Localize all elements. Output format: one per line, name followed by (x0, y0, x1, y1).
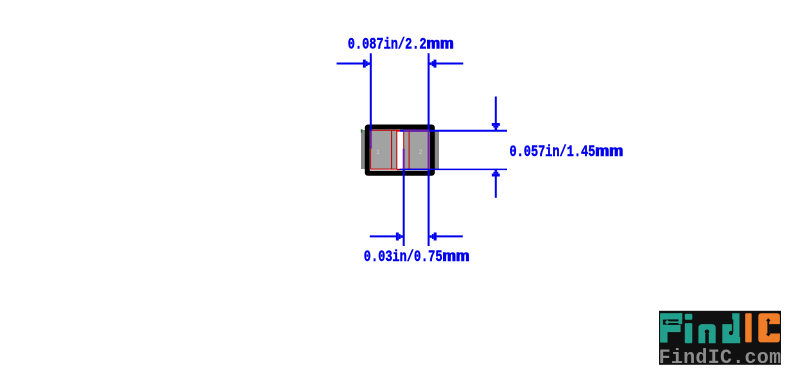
wire arrow line bottom-right (436, 235, 463, 237)
logo letter d (722, 313, 740, 343)
wire ext right-dim upper (400, 130, 507, 132)
wire arrow vertical lower (495, 176, 497, 198)
arrowhead up (492, 169, 500, 176)
logo F cut (663, 320, 679, 325)
svg-text:0.057in/1.45mm: 0.057in/1.45mm (510, 143, 624, 161)
wire ext left top (370, 53, 372, 131)
component body outline (367, 127, 432, 173)
logo letter I (745, 313, 752, 342)
green tick (361, 129, 363, 132)
wire ext bottom-right (428, 169, 430, 246)
wire ext bottom-left (403, 169, 405, 246)
wire ext bottom-right purple (428, 131, 430, 169)
logo d node (729, 331, 733, 335)
right terminal tab (432, 130, 440, 169)
pad 1 inner line (391, 130, 393, 169)
wire ext right top (428, 53, 430, 130)
left terminal tab (361, 130, 368, 169)
logo n node (705, 330, 710, 335)
logo C trace (766, 318, 770, 336)
wire ext left top purple (370, 131, 372, 149)
logo letter C (758, 313, 780, 342)
wire arrow line top-left (337, 63, 364, 65)
wire ext right-dim lower (400, 168, 507, 170)
logo letter n (698, 324, 715, 343)
svg-text:0.087in/2.2mm: 0.087in/2.2mm (348, 35, 454, 53)
logo letter F (660, 313, 682, 342)
logo n trace (706, 332, 708, 344)
arrowhead bottom-left (396, 233, 403, 241)
wire ext bottom-left purple (403, 149, 405, 169)
pad 2 (404, 130, 429, 169)
arrowhead top-left (363, 60, 370, 68)
wire arrow line bottom-left (370, 235, 397, 237)
logo F node (665, 320, 680, 325)
pad 2 inner line (408, 130, 410, 169)
svg-text:1: 1 (376, 149, 380, 156)
wire ext right-dim upper purple overlay (404, 130, 429, 132)
red mark top gap (397, 130, 400, 132)
wire arrow line top-right (436, 63, 464, 65)
logo background (659, 311, 781, 365)
svg-text:0.03in/0.75mm: 0.03in/0.75mm (364, 248, 470, 266)
pad 1 (371, 130, 397, 169)
arrowhead top-right (429, 60, 436, 68)
svg-text:2: 2 (419, 149, 423, 156)
wire arrow vertical upper (495, 97, 497, 125)
arrowhead bottom-right (430, 233, 437, 241)
red mark bottom gap (397, 169, 400, 170)
logo d trace (732, 319, 733, 332)
arrowhead down (492, 123, 500, 130)
logo letter i (685, 314, 693, 344)
svg-text:FindIC.com: FindIC.com (659, 347, 782, 370)
